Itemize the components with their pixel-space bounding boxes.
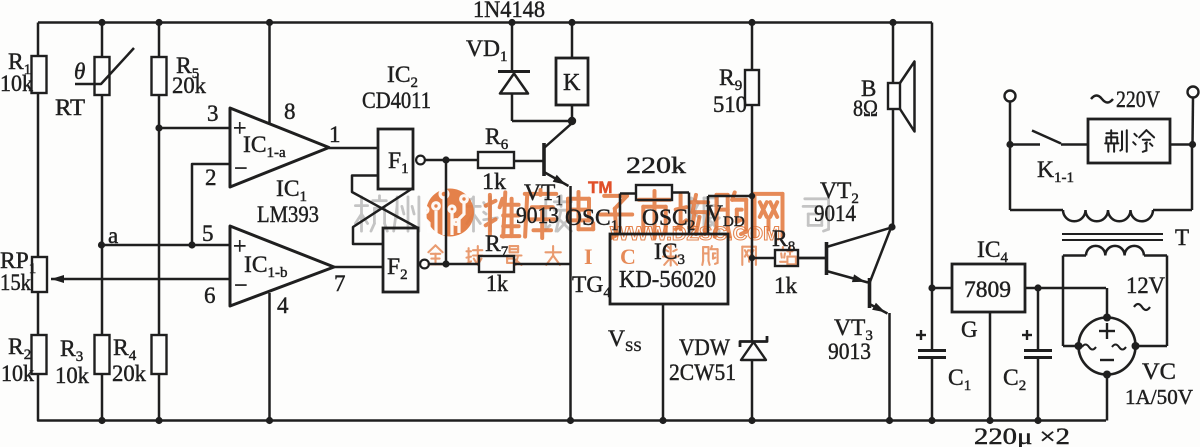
label IC1 LM393 [257, 176, 319, 227]
transformer T core [1062, 225, 1189, 250]
svg-text:−: − [234, 156, 248, 182]
svg-text:1k: 1k [774, 273, 798, 298]
svg-text:OSC2: OSC2 [642, 205, 695, 234]
wire VT2/VT3 collectors node [888, 223, 895, 230]
wire 9V feed (rail corner to 7809 output) [928, 23, 935, 292]
op-amp IC1-a (comparator LM393 half) [230, 108, 329, 187]
svg-text:2CW51: 2CW51 [669, 360, 736, 385]
zener diode VDW 2CW51 [669, 335, 767, 421]
wire F1/F2 output junction column [425, 156, 479, 267]
resistor R2 10k [1, 334, 47, 386]
svg-text:5: 5 [202, 221, 214, 246]
svg-text:6: 6 [204, 283, 216, 308]
transistor VT1 9013 [516, 124, 571, 228]
terminal right ~220V [1188, 87, 1199, 145]
svg-text:VDW: VDW [679, 335, 730, 360]
resistor R4 20k [112, 335, 167, 421]
resistor R1 10k [0, 23, 47, 258]
svg-text:7: 7 [334, 271, 346, 296]
svg-text:12V: 12V [1126, 273, 1165, 298]
wire pin2 (node to IC1-a -) [188, 164, 230, 249]
svg-text:KD-56020: KD-56020 [619, 267, 716, 293]
resistor R9 510 [713, 23, 759, 342]
resistor R3 10k [55, 245, 110, 421]
svg-text:LM393: LM393 [257, 202, 319, 227]
transistor VT2 9014 [798, 178, 890, 283]
svg-text:510: 510 [713, 92, 747, 117]
svg-text:1k: 1k [482, 169, 507, 194]
wire cooling box to right terminal [1170, 141, 1196, 148]
switch K1-1 [1006, 131, 1088, 187]
watermark logo circle [422, 189, 474, 237]
wire pin3 (R5 to IC1-a +) [155, 101, 230, 132]
svg-text:220μ ×2: 220μ ×2 [974, 424, 1070, 447]
NAND gate F1 [378, 129, 425, 189]
svg-text:7809: 7809 [964, 277, 1011, 302]
svg-text:T: T [1175, 225, 1189, 250]
cross-coupling wires (RS latch) [352, 176, 418, 245]
NAND gate F2 [383, 228, 429, 292]
svg-text:TM: TM [588, 178, 613, 197]
wire 7809 input from rectifier [1025, 284, 1106, 291]
svg-text:10k: 10k [1, 361, 34, 386]
transformer T primary winding [1010, 145, 1192, 222]
svg-text:220k: 220k [626, 153, 687, 178]
svg-text:CD4011: CD4011 [362, 88, 431, 113]
svg-text:K: K [563, 70, 581, 96]
potentiometer RP1 15k [0, 248, 230, 335]
svg-text:θ: θ [74, 59, 85, 84]
resistor R8 1k [749, 226, 825, 298]
svg-text:20k: 20k [112, 361, 146, 386]
diode VD1 1N4148 [466, 0, 545, 121]
label 220u x2 [974, 424, 1070, 447]
svg-text:C: C [620, 244, 636, 269]
wire pin5 (node a to IC1-b +) [102, 221, 231, 246]
svg-text:2: 2 [205, 165, 217, 190]
svg-text:I: I [584, 244, 593, 269]
op-amp IC1-b (comparator LM393 half) [230, 226, 334, 306]
svg-text:8: 8 [284, 99, 296, 124]
bridge rectifier VC 1A/50V [1075, 288, 1194, 421]
capacitor C1 220u [916, 288, 971, 421]
watermark title characters [486, 190, 783, 238]
capacitor C2 220u [1003, 288, 1052, 421]
terminal left ~220V [1005, 91, 1016, 145]
node a [98, 223, 118, 249]
thermistor RT [55, 23, 134, 246]
svg-text:9013: 9013 [516, 203, 559, 228]
resistor 220k (oscillator) [620, 153, 689, 234]
wire VD1/K/VT1 collector node [512, 117, 576, 125]
wire top power rail [38, 19, 932, 26]
watermark TM mark [588, 178, 613, 197]
svg-text:G: G [961, 317, 978, 342]
wire R6 to VT1 base [514, 160, 544, 163]
transistor VT3 9013 [828, 229, 891, 364]
wire 7809 ground pin [989, 312, 992, 421]
wire VSS pin to ground [608, 304, 663, 421]
svg-text:VC: VC [1142, 359, 1176, 384]
svg-text:8Ω: 8Ω [853, 96, 878, 121]
watermark gray company text [355, 196, 828, 231]
svg-text:OSC1: OSC1 [565, 205, 618, 234]
transformer T secondary winding 12V [1063, 246, 1167, 346]
cooling load box (zhi leng) [1088, 119, 1170, 163]
wire pin8 (IC1-a top to rail) [270, 23, 296, 125]
wire pin1 (IC1-a out to F1) [329, 122, 378, 148]
svg-text:9013: 9013 [828, 339, 871, 364]
svg-text:1: 1 [329, 122, 341, 147]
IC3 KD-56020 music IC [565, 201, 745, 304]
svg-text:4: 4 [277, 293, 289, 318]
svg-text:15k: 15k [0, 270, 31, 295]
resistor R5 20k [152, 23, 207, 336]
svg-text:9014: 9014 [814, 201, 856, 226]
wire R7 to TG4 node [514, 263, 571, 266]
svg-text:20k: 20k [172, 73, 206, 98]
svg-text:RT: RT [55, 95, 85, 120]
resistor R7 1k [479, 231, 514, 296]
IC4 7809 regulator [932, 237, 1025, 342]
svg-text:3: 3 [207, 101, 219, 126]
wire VT3 emitter to ground [888, 313, 891, 421]
wire pin6 (RP1 wiper to IC1-b -) [204, 283, 216, 308]
svg-text:10k: 10k [0, 71, 33, 96]
watermark subtitle characters [428, 244, 796, 269]
watermark url text [610, 224, 780, 245]
wire VT1 emitter to ground [569, 186, 572, 421]
label IC2 CD4011 [362, 62, 431, 113]
resistor R6 1k [478, 124, 514, 194]
svg-text:1N4148: 1N4148 [473, 0, 545, 22]
svg-text:1k: 1k [486, 271, 508, 296]
wire pin4 (IC1-b to ground) [270, 293, 290, 421]
svg-text:220V: 220V [1116, 87, 1160, 112]
relay K [556, 23, 588, 122]
wire bottom ground rail [38, 374, 1106, 424]
wire VDD pin to R9 column [708, 193, 755, 234]
wire pin7 (IC1-b out to F2) [334, 267, 383, 296]
svg-text:10k: 10k [55, 363, 89, 388]
label ~220V [1091, 87, 1160, 112]
svg-text:1A/50V: 1A/50V [1125, 385, 1193, 409]
speaker B 8ohm [853, 23, 915, 227]
